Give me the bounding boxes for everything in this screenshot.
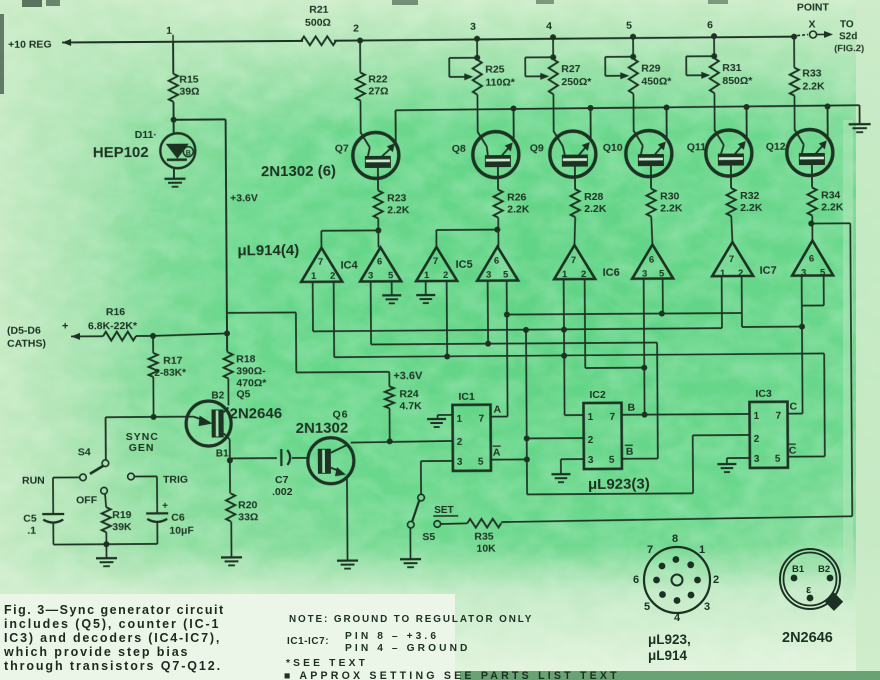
svg-text:4: 4 bbox=[546, 20, 552, 32]
svg-text:Fig. 3—Sync generator circuit: Fig. 3—Sync generator circuit bbox=[4, 603, 225, 617]
svg-text:R25: R25 bbox=[485, 64, 505, 76]
potentiometer R25 bbox=[476, 39, 478, 60]
svg-text:R17: R17 bbox=[163, 355, 183, 367]
svg-text:R30: R30 bbox=[660, 190, 680, 202]
wire R28 to IC6 gate A apex bbox=[574, 217, 575, 245]
svg-text:through transistors Q7-Q12.: through transistors Q7-Q12. bbox=[4, 659, 222, 673]
svg-text:C7: C7 bbox=[275, 474, 289, 486]
wire Q6 emitter to ground bbox=[346, 476, 349, 560]
svg-text:R22: R22 bbox=[368, 73, 388, 85]
svg-text:6: 6 bbox=[809, 254, 814, 265]
svg-text:PIN 8 – +3.6: PIN 8 – +3.6 bbox=[345, 631, 439, 642]
svg-text:4: 4 bbox=[674, 612, 681, 624]
svg-text:ε: ε bbox=[806, 584, 812, 596]
svg-text:IC1-IC7:: IC1-IC7: bbox=[287, 636, 329, 647]
wire R34 junction to S5 line bbox=[811, 222, 850, 224]
switch S5 right contact bbox=[434, 521, 441, 528]
wire IC5 pin5 / A riser to IC1 pin7 bbox=[506, 281, 509, 417]
svg-text:+10 REG: +10 REG bbox=[8, 39, 52, 51]
svg-text:R18: R18 bbox=[236, 353, 256, 365]
wire Q6 collector to IC1 pin2 bbox=[351, 441, 453, 443]
svg-text:1: 1 bbox=[424, 270, 430, 281]
wire Cbar riser to IC3 pin5 bbox=[823, 353, 826, 456]
svg-text:850Ω*: 850Ω* bbox=[722, 75, 753, 87]
svg-text:2: 2 bbox=[738, 268, 743, 279]
svg-text:33Ω: 33Ω bbox=[238, 511, 258, 523]
svg-text:250Ω*: 250Ω* bbox=[561, 76, 592, 88]
svg-text:2: 2 bbox=[581, 269, 586, 280]
svg-text:+: + bbox=[162, 501, 168, 512]
svg-text:3: 3 bbox=[588, 455, 594, 466]
svg-text:3: 3 bbox=[754, 454, 760, 465]
wire C5 to bottom rail bbox=[52, 523, 54, 545]
ground IC4 pin5 bbox=[382, 294, 401, 296]
wire IC1 pin1 to ground bbox=[438, 414, 453, 416]
svg-text:1: 1 bbox=[699, 544, 705, 556]
pin diagram 2N2646 package bbox=[780, 549, 840, 609]
svg-text:R26: R26 bbox=[507, 191, 527, 203]
wire IC7 pin2 lead bbox=[741, 276, 743, 327]
resistor R34 bbox=[807, 187, 816, 215]
svg-text:2.2K: 2.2K bbox=[821, 201, 844, 213]
ground IC3 pin3 bbox=[717, 463, 736, 465]
svg-text:1: 1 bbox=[166, 25, 172, 37]
svg-text:R27: R27 bbox=[561, 63, 581, 75]
diode D11 HEP102 bbox=[160, 133, 195, 168]
counter IC3 uL923 bbox=[749, 402, 787, 468]
svg-text:includes (Q5), counter (IC-1: includes (Q5), counter (IC-1 bbox=[4, 617, 220, 631]
svg-text:2.2K: 2.2K bbox=[802, 80, 825, 92]
resistor R19 bbox=[105, 494, 106, 507]
svg-text:6.8K-22K*: 6.8K-22K* bbox=[88, 320, 138, 332]
ground below R19 bbox=[96, 557, 117, 559]
wire R24 to Q6 collector bbox=[389, 408, 391, 441]
ground below R20 bbox=[221, 556, 242, 558]
wire IC4 pin2 lead bbox=[333, 282, 336, 357]
svg-text:500Ω: 500Ω bbox=[305, 17, 331, 29]
wire C7 to Q6 base bbox=[292, 457, 309, 459]
wire R18 to Q5 base2 bbox=[227, 378, 229, 405]
svg-text:2N2646: 2N2646 bbox=[229, 405, 282, 422]
svg-text:S2d: S2d bbox=[839, 31, 857, 42]
svg-text:HEP102: HEP102 bbox=[93, 144, 149, 161]
switch TRIG contact bbox=[128, 473, 135, 480]
node 5 bbox=[630, 34, 636, 40]
resistor R22 bbox=[359, 41, 361, 73]
svg-text:μL923,: μL923, bbox=[648, 632, 691, 647]
decoder IC6 gate A (pins 7-1-2) bbox=[554, 245, 595, 279]
wire R34 to IC7 gate B apex bbox=[811, 216, 813, 241]
wire R15 to D11 bbox=[172, 102, 174, 133]
svg-text:■ APPROX SETTING SEE PARTS LIS: ■ APPROX SETTING SEE PARTS LIST TEXT bbox=[284, 670, 620, 680]
svg-text:*SEE TEXT: *SEE TEXT bbox=[286, 658, 368, 669]
svg-text:μL923(3): μL923(3) bbox=[588, 476, 650, 493]
svg-text:IC3) and decoders (IC4-IC7),: IC3) and decoders (IC4-IC7), bbox=[4, 631, 221, 645]
svg-text:IC1: IC1 bbox=[458, 391, 475, 403]
wire net Cbar horizontal bbox=[334, 353, 824, 357]
ground right of bus bbox=[849, 123, 871, 125]
wire Abar riser IC1/IC2 bbox=[526, 330, 527, 494]
transistor Q9 2N1302 bbox=[550, 131, 596, 177]
svg-text:Q10: Q10 bbox=[603, 142, 623, 154]
terminal POINT X to S2d bbox=[791, 34, 797, 40]
transistor Q6 2N1302 bbox=[308, 438, 354, 484]
svg-text:D11·: D11· bbox=[135, 129, 157, 141]
svg-text:μL914(4): μL914(4) bbox=[237, 242, 299, 259]
node 4 bbox=[550, 34, 556, 40]
decoder IC7 gate B (pins 6-3-5) bbox=[792, 240, 833, 275]
svg-text:R20: R20 bbox=[238, 499, 258, 511]
wire IC7 pin3 / C riser to IC3 pin7 bbox=[801, 276, 804, 414]
svg-text:Q5: Q5 bbox=[236, 388, 250, 400]
svg-text:IC2: IC2 bbox=[589, 389, 606, 401]
svg-text:R21: R21 bbox=[309, 4, 329, 16]
svg-text:S5: S5 bbox=[422, 531, 435, 543]
ground IC1 pin1 bbox=[427, 418, 446, 420]
node 6 bbox=[711, 33, 717, 39]
wire IC6 pin3 / B riser bbox=[643, 279, 646, 415]
svg-text:which provide step: which provide step bias bbox=[3, 645, 189, 659]
svg-text:IC3: IC3 bbox=[755, 388, 772, 400]
svg-text:2.2K: 2.2K bbox=[507, 203, 530, 215]
svg-text:390Ω-: 390Ω- bbox=[236, 365, 266, 377]
wire bus to ground bbox=[859, 105, 861, 123]
svg-text:6: 6 bbox=[494, 256, 499, 267]
ground below D11 bbox=[164, 178, 185, 180]
decoder IC5 gate B (pins 6-3-5) bbox=[477, 246, 518, 280]
svg-text:5: 5 bbox=[388, 270, 394, 281]
wire R19 to ground bbox=[105, 544, 107, 557]
transistor Q12 2N1302 bbox=[787, 129, 833, 175]
wire IC7 pin5 jog bbox=[823, 275, 825, 305]
scan artifact marks bbox=[22, 0, 42, 7]
wire R23 to IC4 apexes bbox=[377, 218, 379, 247]
svg-text:2: 2 bbox=[457, 437, 463, 448]
wire R30 to IC6 gate B apex bbox=[651, 217, 652, 245]
svg-text:3: 3 bbox=[470, 21, 476, 33]
transistor Q5 2N2646 unijunction bbox=[186, 401, 231, 446]
resistor R33 bbox=[793, 37, 795, 68]
svg-text:3: 3 bbox=[457, 457, 463, 468]
decoder IC6 gate B (pins 6-3-5) bbox=[632, 244, 673, 278]
svg-text:2.2K: 2.2K bbox=[660, 202, 683, 214]
svg-text:2N1302: 2N1302 bbox=[296, 420, 349, 437]
wire IC1 pin7 to A riser bbox=[491, 416, 508, 418]
svg-text:2: 2 bbox=[353, 23, 359, 35]
svg-text:7: 7 bbox=[318, 257, 323, 268]
svg-text:+3.6V: +3.6V bbox=[230, 192, 258, 204]
svg-text:2N2646: 2N2646 bbox=[782, 630, 833, 646]
svg-text:3: 3 bbox=[642, 269, 647, 280]
svg-text:B: B bbox=[186, 150, 191, 157]
wire IC5 pin2 lead bbox=[446, 281, 449, 356]
svg-text:μL914: μL914 bbox=[648, 648, 688, 663]
svg-text:6: 6 bbox=[377, 256, 382, 267]
svg-text:(D5-D6: (D5-D6 bbox=[7, 325, 41, 337]
capacitor C7 bbox=[280, 449, 282, 466]
svg-text:6: 6 bbox=[633, 574, 639, 586]
svg-text:1: 1 bbox=[562, 269, 568, 280]
svg-text:A: A bbox=[493, 404, 501, 416]
svg-text:3: 3 bbox=[704, 601, 710, 613]
decoder IC4 gate B (pins 6-3-5) bbox=[360, 247, 401, 281]
wire RUN contact to C5 bbox=[53, 476, 79, 478]
svg-text:B1: B1 bbox=[216, 448, 229, 459]
potentiometer R31 bbox=[713, 36, 715, 58]
svg-text:2: 2 bbox=[713, 574, 719, 586]
switch S4 bbox=[102, 460, 109, 467]
svg-text:IC7: IC7 bbox=[760, 265, 777, 277]
wire IC4 pin5 to ground bbox=[391, 281, 393, 294]
wire B net IC2 pin7 to IC3 pin1 bbox=[621, 413, 750, 416]
svg-text:2: 2 bbox=[754, 434, 760, 445]
svg-text:1: 1 bbox=[457, 414, 463, 425]
svg-text:1: 1 bbox=[311, 271, 317, 282]
wire B net jog bbox=[585, 367, 644, 369]
svg-text:7: 7 bbox=[647, 544, 653, 556]
svg-text:R31: R31 bbox=[722, 62, 742, 74]
wire IC3 pin3 to ground bbox=[727, 457, 750, 459]
svg-text:2.2K: 2.2K bbox=[740, 202, 763, 214]
svg-text:R15: R15 bbox=[179, 74, 199, 86]
svg-text:2‑83K*: 2‑83K* bbox=[154, 368, 186, 379]
resistor R20 bbox=[229, 460, 231, 493]
wire +10 REG rail bbox=[75, 41, 303, 43]
svg-text:2: 2 bbox=[330, 271, 335, 282]
wire net Bbar horizontal bbox=[371, 343, 657, 345]
svg-text:B1: B1 bbox=[792, 564, 805, 575]
wire R17 to Q5 emitter node bbox=[152, 377, 154, 417]
counter IC1 uL923 bbox=[452, 405, 490, 471]
svg-text:R32: R32 bbox=[740, 190, 760, 202]
wire bottom rail S4 section bbox=[53, 543, 157, 546]
ground below S5 bbox=[400, 558, 421, 560]
svg-text:+: + bbox=[62, 320, 69, 332]
svg-text:6: 6 bbox=[707, 19, 713, 31]
wire R22 to Q7 collector bbox=[359, 101, 361, 134]
wire Abar to IC3 pin2 loop bbox=[527, 493, 693, 494]
switch OFF contact bbox=[101, 487, 108, 494]
ground below Q6 bbox=[337, 559, 358, 561]
resistor R30 bbox=[646, 189, 655, 217]
svg-text:7: 7 bbox=[729, 254, 734, 265]
svg-text:5: 5 bbox=[503, 270, 509, 281]
wire R33 to Q12 collector bbox=[793, 96, 795, 131]
wire IC2 pin3 to ground bbox=[561, 458, 584, 460]
svg-text:5: 5 bbox=[659, 269, 665, 280]
wire IC1 pin3 to S5 bbox=[421, 460, 453, 462]
svg-text:110Ω*: 110Ω* bbox=[485, 76, 515, 88]
svg-text:7: 7 bbox=[610, 412, 616, 423]
svg-text:5: 5 bbox=[609, 455, 615, 466]
svg-text:R34: R34 bbox=[821, 189, 841, 201]
svg-text:5: 5 bbox=[644, 601, 650, 613]
wire IC4 pin1 lead bbox=[312, 282, 314, 331]
svg-text:CATHS): CATHS) bbox=[7, 338, 46, 350]
svg-text:4.7K: 4.7K bbox=[399, 400, 422, 412]
svg-text:+3.6V: +3.6V bbox=[393, 370, 423, 382]
svg-text:B2: B2 bbox=[818, 564, 830, 575]
resistor R23 bbox=[373, 190, 382, 218]
svg-text:3: 3 bbox=[486, 270, 491, 281]
svg-text:2: 2 bbox=[443, 270, 448, 281]
wire IC5 pin1 to ground bbox=[425, 281, 427, 294]
svg-text:X: X bbox=[808, 19, 815, 31]
wire SET to R35 bbox=[441, 522, 468, 525]
svg-text:3: 3 bbox=[368, 270, 373, 281]
svg-text:R24: R24 bbox=[399, 388, 419, 400]
counter IC2 uL923 bbox=[583, 403, 621, 469]
svg-text:OFF: OFF bbox=[76, 494, 98, 506]
svg-text:7: 7 bbox=[433, 256, 438, 267]
svg-text:5: 5 bbox=[626, 20, 632, 32]
resistor R21 bbox=[301, 36, 336, 45]
wire R20 to ground bbox=[230, 521, 232, 556]
wire Q5 emitter to S4 bbox=[106, 416, 154, 418]
svg-text:TO: TO bbox=[840, 19, 854, 30]
svg-text:27Ω: 27Ω bbox=[368, 85, 388, 97]
svg-text:B2: B2 bbox=[211, 390, 224, 401]
svg-text:5: 5 bbox=[478, 457, 484, 468]
wire R32 to IC7 gate A apex bbox=[731, 216, 732, 242]
wire Bbar riser to IC2 pin5 bbox=[656, 343, 659, 459]
node 3 bbox=[474, 36, 480, 42]
svg-text:10μF: 10μF bbox=[169, 525, 194, 537]
svg-text:IC6: IC6 bbox=[603, 267, 620, 279]
decoder IC5 gate A (pins 7-1-2) bbox=[416, 247, 457, 281]
wire R16 left with arrow bbox=[71, 333, 80, 340]
node 2 bbox=[357, 38, 363, 44]
svg-text:5: 5 bbox=[775, 454, 781, 465]
svg-text:C: C bbox=[789, 445, 797, 457]
svg-text:1: 1 bbox=[588, 412, 594, 423]
svg-text:R29: R29 bbox=[641, 63, 661, 75]
svg-text:R33: R33 bbox=[802, 67, 822, 79]
svg-text:PIN 4 – GROUND: PIN 4 – GROUND bbox=[345, 643, 470, 654]
wire net Abar horizontal bbox=[313, 328, 722, 331]
wire IC7 pin1 lead bbox=[721, 276, 723, 328]
svg-text:(FIG.2): (FIG.2) bbox=[834, 43, 864, 54]
wire +3.6V to R24 bbox=[227, 311, 296, 313]
decoder IC7 gate A (pins 7-1-2) bbox=[712, 242, 753, 276]
pin diagram uL923/uL914 package bbox=[644, 547, 710, 613]
svg-text:SET: SET bbox=[434, 505, 454, 516]
svg-text:IC5: IC5 bbox=[456, 259, 473, 271]
resistor R18 bbox=[227, 351, 228, 352]
switch S5 bbox=[418, 494, 425, 501]
svg-text:NOTE: GROUND TO REGULATOR: NOTE: GROUND TO REGULATOR ONLY bbox=[289, 614, 533, 625]
svg-text:7: 7 bbox=[571, 255, 576, 266]
wire IC6 pin1 riser to IC2 pin1 bbox=[563, 279, 566, 415]
svg-text:450Ω*: 450Ω* bbox=[641, 75, 672, 87]
resistor R35 bbox=[467, 519, 501, 528]
svg-text:B: B bbox=[627, 402, 635, 414]
svg-text:2N1302 (6): 2N1302 (6) bbox=[261, 163, 336, 180]
svg-text:Q12: Q12 bbox=[766, 141, 786, 153]
capacitor C6 bbox=[146, 512, 168, 514]
ground IC5 pin1 bbox=[416, 294, 435, 296]
svg-text:Q11: Q11 bbox=[687, 141, 707, 153]
svg-text:R23: R23 bbox=[387, 192, 407, 204]
svg-text:S4: S4 bbox=[78, 446, 91, 458]
svg-text:Q8: Q8 bbox=[452, 143, 466, 155]
resistor R16 bbox=[103, 332, 136, 341]
svg-text:Q7: Q7 bbox=[335, 143, 349, 155]
resistor R28 bbox=[570, 189, 579, 217]
svg-text:1: 1 bbox=[754, 411, 760, 422]
wire Q5 B1 to C7 bbox=[229, 439, 231, 460]
resistor R17 bbox=[152, 336, 154, 353]
wire emitter bus bbox=[396, 105, 860, 110]
svg-text:R28: R28 bbox=[584, 191, 604, 203]
transistor Q8 2N1302 bbox=[473, 131, 519, 177]
resistor R15 bbox=[169, 74, 178, 102]
wire D11 to ground bbox=[173, 168, 175, 178]
svg-text:2.2K: 2.2K bbox=[387, 204, 410, 216]
wire IC6 pin2 lead bbox=[584, 279, 587, 368]
transistor Q11 2N1302 bbox=[706, 130, 752, 176]
svg-text:.1: .1 bbox=[27, 525, 36, 537]
svg-text:2.2K: 2.2K bbox=[584, 203, 607, 215]
wire S5 to ground bbox=[409, 528, 411, 558]
svg-text:R35: R35 bbox=[474, 531, 494, 543]
svg-text:Q9: Q9 bbox=[530, 142, 544, 154]
resistor R24 bbox=[388, 372, 390, 386]
wire IC4 pin3 lead bbox=[370, 281, 372, 344]
svg-text:7: 7 bbox=[776, 411, 782, 422]
svg-text:C: C bbox=[789, 401, 797, 413]
svg-text:C6: C6 bbox=[171, 512, 185, 524]
decoder IC4 gate A (pins 7-1-2) bbox=[301, 248, 342, 282]
svg-text:R16: R16 bbox=[106, 306, 126, 318]
ground IC2 pin3 bbox=[551, 473, 570, 475]
resistor R26 bbox=[493, 190, 502, 218]
transistor Q10 2N1302 bbox=[626, 130, 672, 176]
svg-text:10K: 10K bbox=[476, 543, 496, 555]
wire +3.6V branch bbox=[174, 118, 226, 120]
wire R16 to +3.6V line bbox=[136, 335, 153, 337]
capacitor C5 bbox=[42, 513, 64, 515]
potentiometer R27 bbox=[552, 37, 554, 59]
svg-text:B: B bbox=[626, 446, 634, 458]
svg-text:R19: R19 bbox=[112, 509, 132, 521]
resistor R32 bbox=[726, 188, 735, 216]
potentiometer R29 bbox=[632, 37, 634, 59]
svg-text:.002: .002 bbox=[272, 486, 293, 498]
svg-text:TRIG: TRIG bbox=[163, 474, 188, 486]
wire C6 to bottom rail bbox=[156, 522, 158, 544]
wire R26 to IC5 apexes bbox=[497, 218, 499, 247]
svg-text:2: 2 bbox=[588, 435, 594, 446]
svg-text:39K: 39K bbox=[112, 521, 132, 533]
wire net A horizontal bbox=[507, 313, 742, 315]
svg-text:39Ω: 39Ω bbox=[179, 86, 199, 98]
svg-text:GEN: GEN bbox=[129, 442, 155, 454]
transistor Q7 2N1302 bbox=[353, 132, 399, 178]
svg-text:POINT: POINT bbox=[797, 1, 830, 13]
svg-text:6: 6 bbox=[649, 255, 654, 266]
svg-text:IC4: IC4 bbox=[341, 260, 359, 272]
svg-text:8: 8 bbox=[672, 533, 678, 545]
svg-text:A: A bbox=[493, 447, 501, 459]
svg-text:C5: C5 bbox=[23, 513, 37, 525]
svg-text:RUN: RUN bbox=[22, 475, 45, 487]
wire R35 to R34 riser bbox=[501, 516, 852, 522]
wire TRIG to C6 bbox=[134, 475, 156, 477]
wire IC6 pin5 lead bbox=[662, 279, 664, 314]
svg-text:7: 7 bbox=[479, 414, 485, 425]
wire IC5 pin3 lead bbox=[487, 281, 489, 344]
